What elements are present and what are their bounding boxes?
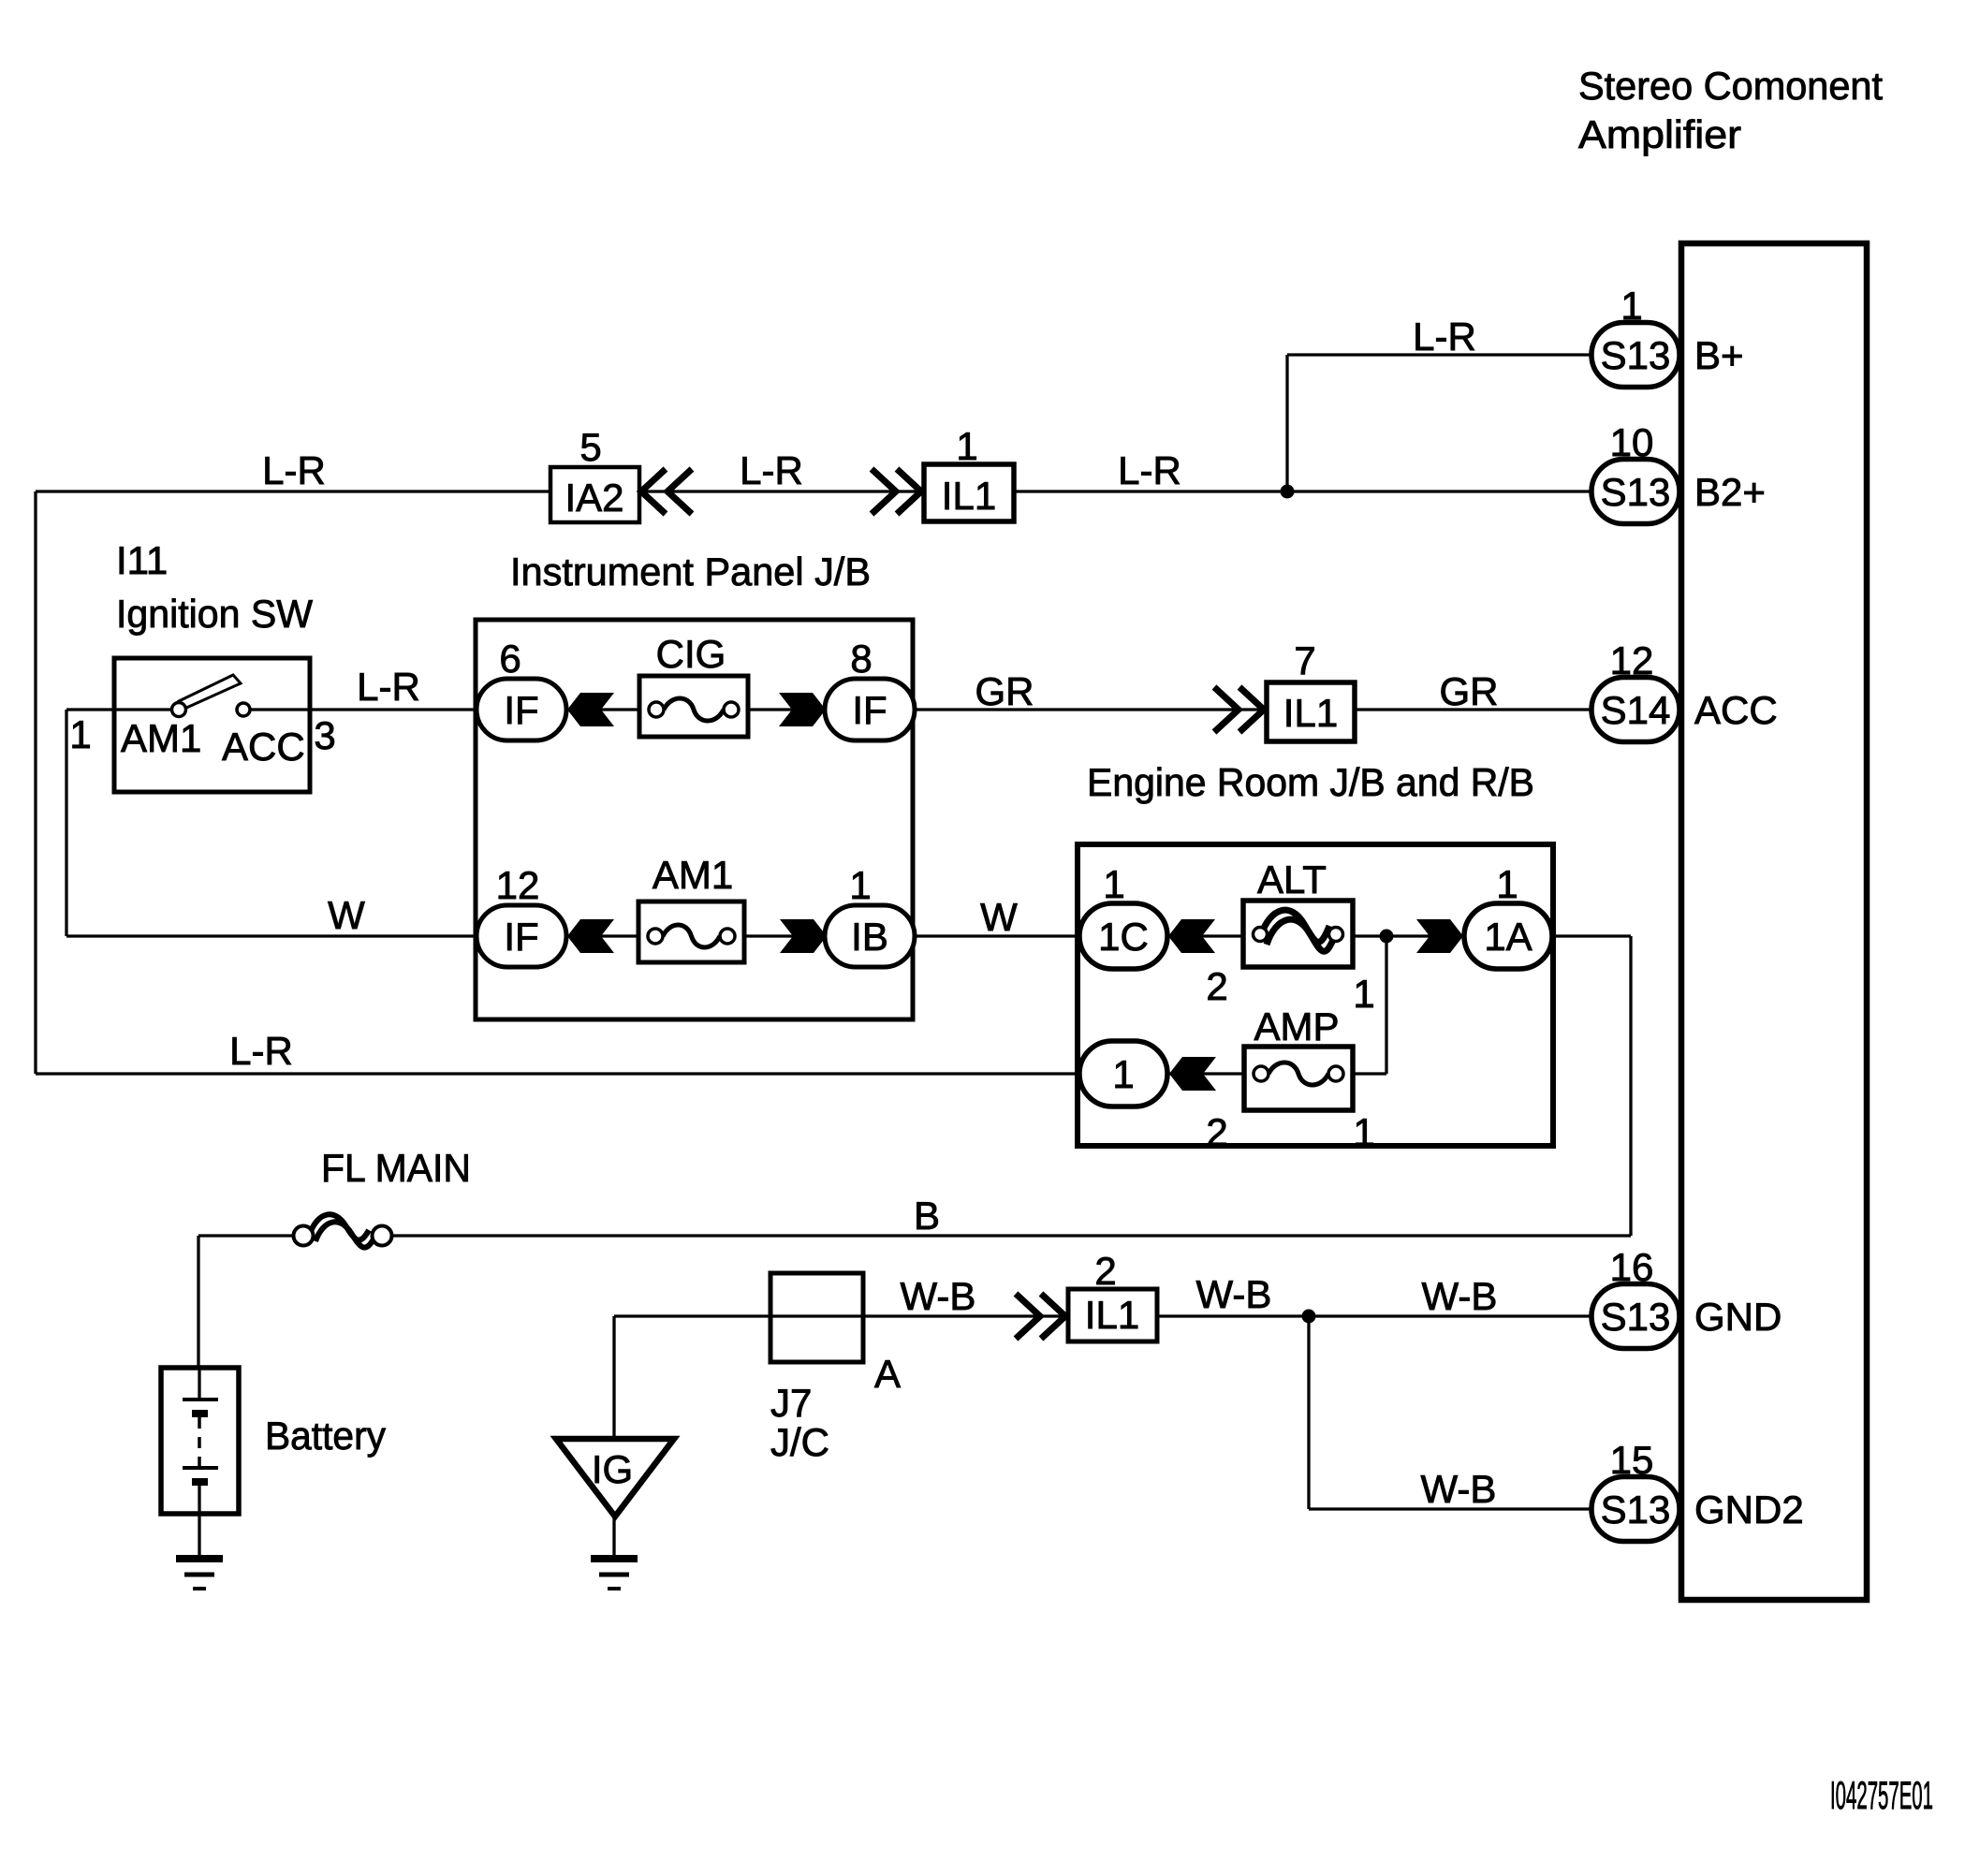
svg-text:1: 1 (1620, 284, 1642, 328)
svg-text:IA2: IA2 (565, 476, 623, 520)
svg-text:1C: 1C (1098, 915, 1149, 959)
svg-text:W-B: W-B (1422, 1274, 1498, 1318)
svg-text:S13: S13 (1601, 333, 1671, 377)
svg-text:IL1: IL1 (942, 474, 996, 518)
svg-text:L-R: L-R (262, 448, 326, 492)
svg-text:B2+: B2+ (1694, 470, 1766, 514)
svg-text:L-R: L-R (229, 1029, 293, 1073)
svg-text:J/C: J/C (770, 1420, 829, 1464)
svg-text:Stereo Comonent: Stereo Comonent (1578, 64, 1883, 108)
svg-text:L-R: L-R (357, 665, 420, 709)
svg-text:1: 1 (69, 712, 91, 756)
svg-text:S14: S14 (1601, 688, 1671, 732)
svg-text:GND2: GND2 (1694, 1488, 1804, 1532)
svg-text:S13: S13 (1601, 470, 1671, 514)
svg-text:ACC: ACC (1694, 688, 1778, 732)
svg-text:CIG: CIG (656, 632, 726, 676)
svg-text:W-B: W-B (1196, 1272, 1272, 1316)
svg-text:Engine Room J/B and R/B: Engine Room J/B and R/B (1087, 760, 1534, 804)
svg-text:I11: I11 (116, 538, 168, 582)
svg-text:J7: J7 (770, 1381, 812, 1425)
svg-text:GR: GR (1440, 669, 1499, 713)
svg-text:W-B: W-B (901, 1274, 976, 1318)
svg-text:GR: GR (975, 669, 1034, 713)
svg-text:7: 7 (1294, 638, 1315, 682)
svg-text:S13: S13 (1601, 1488, 1671, 1532)
svg-text:1: 1 (1353, 1110, 1374, 1154)
svg-text:L-R: L-R (1118, 448, 1181, 492)
svg-text:1: 1 (1112, 1052, 1134, 1096)
svg-text:16: 16 (1610, 1245, 1654, 1289)
svg-text:12: 12 (1610, 638, 1654, 682)
svg-text:IG: IG (592, 1447, 633, 1491)
svg-text:IF: IF (504, 915, 538, 959)
svg-text:W: W (980, 895, 1018, 939)
svg-text:6: 6 (499, 637, 521, 681)
svg-text:5: 5 (579, 425, 601, 469)
svg-text:W: W (328, 893, 365, 937)
svg-text:IF: IF (504, 688, 538, 732)
svg-text:1: 1 (1103, 862, 1124, 906)
svg-text:1: 1 (956, 424, 977, 468)
svg-text:10: 10 (1610, 420, 1654, 464)
svg-text:S13: S13 (1601, 1295, 1671, 1339)
svg-text:Amplifier: Amplifier (1578, 112, 1741, 156)
svg-text:B+: B+ (1694, 333, 1744, 377)
svg-text:L-R: L-R (740, 448, 803, 492)
svg-text:GND: GND (1694, 1295, 1782, 1339)
svg-text:8: 8 (850, 637, 872, 681)
svg-text:L-R: L-R (1413, 315, 1476, 359)
svg-text:2: 2 (1206, 1110, 1227, 1154)
svg-text:2: 2 (1206, 964, 1227, 1008)
svg-text:2: 2 (1094, 1249, 1116, 1293)
svg-text:1: 1 (849, 863, 871, 907)
svg-text:IL1: IL1 (1085, 1293, 1139, 1337)
svg-text:1A: 1A (1484, 915, 1532, 959)
svg-text:Battery: Battery (265, 1414, 386, 1458)
svg-text:B: B (914, 1194, 940, 1238)
svg-text:Instrument Panel J/B: Instrument Panel J/B (510, 550, 871, 594)
svg-text:IB: IB (851, 915, 888, 959)
svg-text:AM1: AM1 (121, 716, 201, 760)
svg-text:ACC: ACC (222, 725, 305, 769)
svg-text:A: A (874, 1352, 901, 1396)
svg-text:ALT: ALT (1257, 857, 1327, 901)
svg-text:AM1: AM1 (653, 853, 733, 897)
svg-text:15: 15 (1610, 1438, 1654, 1482)
svg-text:1: 1 (1496, 862, 1518, 906)
svg-text:1: 1 (1353, 972, 1374, 1016)
svg-text:IL1: IL1 (1283, 691, 1338, 735)
svg-text:I042757E01: I042757E01 (1830, 1773, 1933, 1817)
svg-text:Ignition SW: Ignition SW (116, 592, 313, 636)
svg-text:3: 3 (314, 713, 335, 757)
svg-text:IF: IF (852, 688, 887, 732)
svg-text:W-B: W-B (1421, 1467, 1497, 1511)
svg-text:FL MAIN: FL MAIN (321, 1146, 471, 1190)
svg-text:AMP: AMP (1254, 1004, 1339, 1048)
svg-text:12: 12 (496, 863, 540, 907)
